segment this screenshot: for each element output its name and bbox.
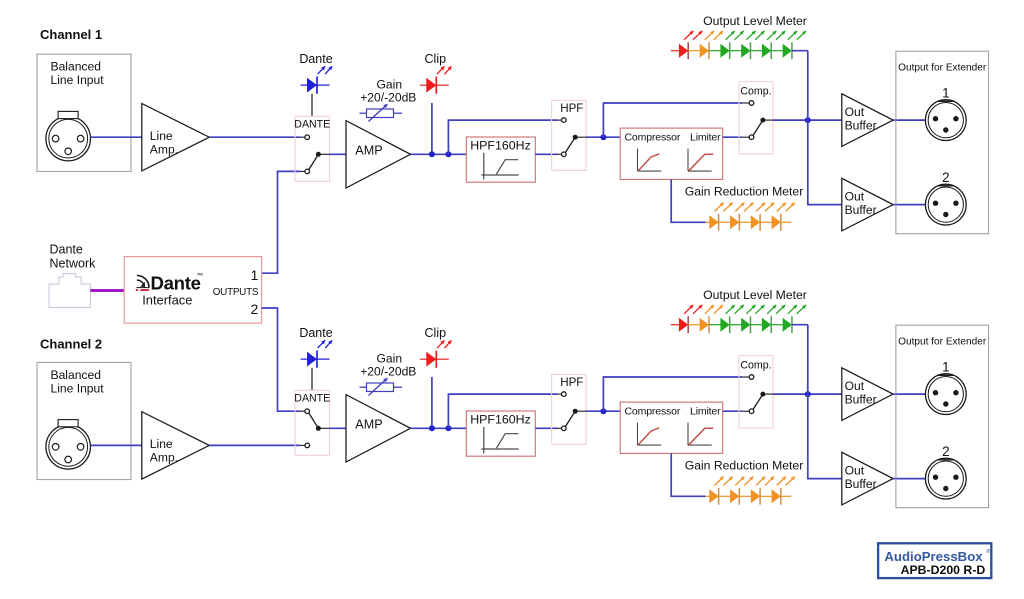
LED level meter LED 2 (channel 2) cathode bar <box>708 316 710 333</box>
DANTE source switch S1a (channel 1) top contact <box>305 135 310 140</box>
switch box compressor bypass S2c (channel 2) <box>739 356 773 428</box>
output level meter lead line (channel 2) <box>671 324 679 326</box>
XLR male connector output 2 (channel 2) outer circle <box>925 458 966 499</box>
wire HPF switch to compressor (channel 2) <box>586 410 620 412</box>
DANTE source switch S1a (channel 1) common contact dot <box>316 152 321 157</box>
LED gain reduction LED 4 (channel 2) cathode bar <box>780 488 782 505</box>
LED gain reduction LED 4 (channel 2) arrow 1 <box>777 477 786 486</box>
svg-text:+20/-20dB: +20/-20dB <box>360 365 416 379</box>
svg-text:HPF160Hz: HPF160Hz <box>470 139 531 153</box>
LED Clip D2b (channel 2) arrow 1 <box>437 340 445 348</box>
svg-text:Out: Out <box>845 190 865 204</box>
svg-text:Network: Network <box>50 256 97 270</box>
junction dot HPF bypass (channel 1) <box>445 151 451 157</box>
HPF response curve horizontal axis (channel 2) <box>481 448 518 450</box>
XLR input J2 pin 2 socket <box>77 444 84 451</box>
wire HPF switch to compressor (channel 1) <box>586 136 620 138</box>
wire out buffer 2 to XLR (channel 1) <box>893 204 925 206</box>
stub to HPF switch bottom contact (channel 1) <box>557 153 562 155</box>
svg-text:Gain Reduction Meter: Gain Reduction Meter <box>685 185 804 199</box>
variable gain attenuator (channel 2) body <box>367 383 394 392</box>
wire Clip LED sense line (channel 2) <box>431 377 433 428</box>
stub to Comp switch top contact (channel 1) <box>742 102 749 104</box>
LED level meter LED 3 (channel 2) arrow 2 <box>735 305 744 314</box>
LED Clip D2b (channel 2) arrow 2 <box>445 340 452 348</box>
LED level meter LED 5 (channel 1) arrow 2 <box>776 31 785 40</box>
balanced line input box (channel 1) <box>37 54 131 171</box>
LED level meter LED 2 (channel 2) triangle <box>700 318 709 332</box>
wire Comp switch to out buffer 1 (channel 2) <box>773 393 842 395</box>
GR meter link segment (channel 2 LED 2) <box>739 495 751 497</box>
XLR male connector output 1 (channel 1) outer circle <box>925 100 966 141</box>
DANTE source switch S2a (channel 2) common contact dot <box>316 426 321 431</box>
XLR input J2 top tab <box>58 420 78 427</box>
LED level meter LED 5 (channel 1) triangle <box>762 44 771 58</box>
HPF switch lever (channel 2) <box>565 411 575 426</box>
LED level meter LED 3 (channel 1) triangle <box>720 44 729 58</box>
XLR male connector output 1 (channel 2) outer circle <box>925 374 966 415</box>
svg-text:Amp.: Amp. <box>150 451 178 465</box>
LED level meter LED 2 (channel 1) arrow 1 <box>705 31 714 40</box>
wire Dante interface output 1 to DANTE switch (channel 1) <box>262 171 301 273</box>
LED Clip D1b (channel 1) lead line <box>420 84 449 86</box>
XLR output 1 (channel 2) pin 3 <box>943 401 948 406</box>
lead from Dante LED to DANTE switch (channel 1) <box>311 94 313 116</box>
wire compressor to Comp switch (channel 2) <box>723 410 742 412</box>
LED level meter LED 4 (channel 2) triangle <box>741 318 750 332</box>
svg-text:HPF: HPF <box>560 376 583 389</box>
XLR output 1 (channel 2) pin 2 <box>953 390 958 395</box>
XLR output 1 (channel 1) top notch <box>938 100 954 102</box>
svg-text:2: 2 <box>942 444 949 459</box>
LED level meter LED 2 (channel 1) triangle <box>700 44 709 58</box>
amplifier Out Buffer U1c (channel 1) <box>842 94 893 147</box>
LED gain reduction LED 4 (channel 1) arrow 1 <box>777 203 786 212</box>
junction dot compressor bypass (channel 1) <box>600 134 606 140</box>
LED gain reduction LED 4 (channel 2) arrow 2 <box>786 477 795 486</box>
meter link segment (channel 2 LED 4) <box>750 324 762 326</box>
meter link segment (channel 1 LED 4) <box>750 50 762 52</box>
variable gain attenuator symbol (channel 1) left lead <box>360 112 367 114</box>
HPF response curve vertical axis (channel 1) <box>483 153 485 180</box>
LED gain reduction LED 4 (channel 1) cathode bar <box>780 214 782 231</box>
HPF switch common dot (channel 2) <box>573 409 578 414</box>
LED gain reduction LED 3 (channel 2) cathode bar <box>759 488 761 505</box>
svg-text:Output Level Meter: Output Level Meter <box>703 14 807 28</box>
XLR output 1 (channel 2) inner circle <box>928 377 963 412</box>
junction dot clip sense (channel 2) <box>429 425 435 431</box>
XLR input J1 top tab <box>58 111 78 118</box>
wire HPF bypass line (channel 2) <box>448 394 557 428</box>
DANTE source switch S2a (channel 2) common stub to box edge <box>318 427 329 429</box>
LED level meter LED 6 (channel 2) arrow 1 <box>788 305 797 314</box>
XLR input J2 inner circle <box>49 427 88 466</box>
gain reduction meter tail line (channel 1) <box>781 221 791 223</box>
svg-text:Buffer: Buffer <box>845 477 877 491</box>
limiter curve horizontal axis (channel 1) <box>688 170 712 172</box>
compressor curve vertical axis (channel 2) <box>637 423 639 446</box>
LED gain reduction LED 3 (channel 1) cathode bar <box>759 214 761 231</box>
LED gain reduction LED 1 (channel 2) arrow 1 <box>715 477 724 486</box>
svg-text:Output for Extender: Output for Extender <box>898 337 987 348</box>
LED level meter LED 4 (channel 2) arrow 2 <box>755 305 764 314</box>
LED level meter LED 3 (channel 1) arrow 2 <box>735 31 744 40</box>
LED gain reduction LED 2 (channel 1) arrow 2 <box>744 203 753 212</box>
LED Clip D1b (channel 1) arrow 1 <box>437 66 445 74</box>
XLR output 2 (channel 2) pin 1 <box>933 475 938 480</box>
Comp switch top contact (channel 1) <box>749 101 754 106</box>
LED level meter LED 6 (channel 2) arrow 2 <box>797 305 806 314</box>
XLR output 2 (channel 2) pin 3 <box>943 486 948 491</box>
stub to HPF switch top contact (channel 2) <box>557 393 562 395</box>
XLR output 1 (channel 2) top notch <box>938 374 954 376</box>
HPF switch common stub (channel 2) <box>575 410 586 412</box>
XLR output 1 (channel 1) pin 2 <box>953 116 958 121</box>
svg-text:AudioPressBox: AudioPressBox <box>884 549 983 564</box>
XLR output 1 (channel 1) pin 1 <box>933 116 938 121</box>
LED level meter LED 5 (channel 1) cathode bar <box>770 42 772 59</box>
limiter curve vertical axis (channel 1) <box>687 149 689 172</box>
DANTE source switch S1a (channel 1) common stub to box edge <box>318 153 329 155</box>
svg-text:Buffer: Buffer <box>845 119 877 133</box>
svg-text:Limiter: Limiter <box>690 406 721 418</box>
LED Dante D1a (channel 1) lead line <box>301 84 330 86</box>
HPF response curve (channel 2) <box>496 434 518 449</box>
LED level meter LED 2 (channel 1) arrow 2 <box>714 31 723 40</box>
svg-text:1: 1 <box>942 359 949 374</box>
LED level meter LED 3 (channel 1) arrow 1 <box>726 31 735 40</box>
meter link segment (channel 1 LED 3) <box>730 50 742 52</box>
LED level meter LED 2 (channel 2) arrow 1 <box>705 305 714 314</box>
variable gain attenuator (channel 2) right lead <box>394 386 403 388</box>
XLR output 2 (channel 2) inner circle <box>928 461 963 496</box>
wire compressor to Comp switch (channel 1) <box>723 136 742 138</box>
variable gain attenuator (channel 1) adjustment arrow <box>369 104 388 122</box>
svg-text:Output for Extender: Output for Extender <box>898 63 987 74</box>
LED Dante D2a (channel 2) lead line <box>301 358 330 360</box>
LED level meter LED 5 (channel 2) triangle <box>762 318 771 332</box>
svg-text:Out: Out <box>845 379 865 393</box>
LED gain reduction LED 2 (channel 2) arrow 2 <box>744 477 753 486</box>
variable gain attenuator (channel 2) adjustment arrow <box>369 378 388 396</box>
LED level meter LED 5 (channel 2) arrow 2 <box>776 305 785 314</box>
XLR female connector input J2 outer circle <box>46 425 91 470</box>
wire compressor bypass line (channel 2) <box>603 377 742 411</box>
svg-text:Comp.: Comp. <box>740 360 771 372</box>
XLR output 2 (channel 2) pin 2 <box>953 475 958 480</box>
LED Dante D1a (channel 1) arrow 1 <box>318 66 326 74</box>
LED level meter LED 1 (channel 1) arrow 1 <box>684 31 693 40</box>
LED Clip D1b (channel 1) arrow 2 <box>445 66 452 74</box>
LED level meter LED 1 (channel 2) arrow 2 <box>693 305 702 314</box>
svg-text:Dante: Dante <box>299 52 332 66</box>
svg-text:Gain Reduction Meter: Gain Reduction Meter <box>685 459 804 473</box>
junction dot compressor bypass (channel 2) <box>600 408 606 414</box>
LED level meter LED 4 (channel 1) triangle <box>741 44 750 58</box>
DANTE source switch S2a (channel 2) stub to top contact <box>301 410 305 412</box>
wire output node to meter and out buffer 2 (channel 1) <box>808 51 842 205</box>
variable gain attenuator symbol (channel 2) left lead <box>360 386 367 388</box>
LED Dante D2a (channel 2) arrow 2 <box>325 340 332 348</box>
LED gain reduction LED 3 (channel 1) triangle <box>751 215 760 229</box>
XLR input J1 pin 3 socket <box>65 148 72 155</box>
HPF switch common stub (channel 1) <box>575 136 586 138</box>
switch box DANTE source switch S2a (channel 2) <box>295 390 330 455</box>
variable gain attenuator (channel 1) right lead <box>394 112 403 114</box>
wire HPF160Hz to HPF switch (channel 1) <box>535 153 557 155</box>
XLR output 1 (channel 2) pin 1 <box>933 390 938 395</box>
LED level meter LED 6 (channel 1) triangle <box>783 44 792 58</box>
wire DANTE switch to AMP (channel 2) <box>330 427 347 429</box>
Comp switch common stub (channel 2) <box>763 393 773 395</box>
XLR male connector output 2 (channel 1) outer circle <box>925 184 966 225</box>
svg-text:2: 2 <box>942 170 949 185</box>
compressor/limiter block (channel 1) <box>620 128 723 179</box>
svg-text:™: ™ <box>197 273 204 280</box>
LED level meter LED 6 (channel 1) cathode bar <box>791 42 793 59</box>
gain reduction meter tail line (channel 2) <box>781 495 791 497</box>
wire AMP to HPF160Hz filter (channel 2) <box>411 427 467 429</box>
amplifier AMP U2b (channel 2) <box>346 395 411 462</box>
LED level meter LED 1 (channel 1) arrow 2 <box>693 31 702 40</box>
DANTE source switch S1a (channel 1) stub to bottom contact <box>301 170 305 172</box>
svg-text:Line: Line <box>150 129 173 143</box>
XLR output 1 (channel 1) inner circle <box>928 103 963 138</box>
compressor transfer curve (channel 2) <box>638 428 659 445</box>
meter link segment (channel 1 LED 5) <box>771 50 783 52</box>
LED Dante D1a (channel 1) cathode bar <box>316 77 318 94</box>
HPF switch bottom contact (channel 1) <box>562 152 567 157</box>
LED level meter LED 3 (channel 2) cathode bar <box>729 316 731 333</box>
wire out buffer 1 to XLR (channel 2) <box>893 393 925 395</box>
DANTE source switch S2a (channel 2) lever <box>309 413 319 428</box>
XLR output 2 (channel 1) pin 3 <box>943 212 948 217</box>
gain reduction meter lead line (channel 1) <box>706 221 710 223</box>
svg-text:Line Input: Line Input <box>51 381 105 395</box>
wire Dante network to interface <box>90 289 124 292</box>
XLR input J2 pin 3 socket <box>65 456 72 463</box>
HPF response curve (channel 1) <box>496 160 518 175</box>
variable gain attenuator (channel 1) body <box>367 109 394 118</box>
svg-text:Out: Out <box>845 105 865 119</box>
LED gain reduction LED 1 (channel 2) arrow 2 <box>723 477 732 486</box>
svg-text:Amp.: Amp. <box>150 142 178 156</box>
compressor curve horizontal axis (channel 1) <box>638 170 662 172</box>
svg-text:Dante: Dante <box>299 326 332 340</box>
LED level meter LED 3 (channel 2) triangle <box>720 318 729 332</box>
svg-text:Buffer: Buffer <box>845 203 877 217</box>
wire AMP to HPF160Hz filter (channel 1) <box>411 153 467 155</box>
LED level meter LED 3 (channel 1) cathode bar <box>729 42 731 59</box>
LED gain reduction LED 1 (channel 1) cathode bar <box>718 214 720 231</box>
svg-text:Clip: Clip <box>425 52 447 66</box>
wire level meter to output node (channel 2) <box>792 324 808 326</box>
LED gain reduction LED 3 (channel 1) arrow 1 <box>756 203 765 212</box>
LED level meter LED 1 (channel 2) arrow 1 <box>684 305 693 314</box>
LED level meter LED 1 (channel 1) triangle <box>679 44 688 58</box>
svg-text:AMP: AMP <box>355 418 382 432</box>
LED level meter LED 3 (channel 2) arrow 1 <box>726 305 735 314</box>
svg-text:1: 1 <box>942 85 949 100</box>
LED level meter LED 6 (channel 2) cathode bar <box>791 316 793 333</box>
HPF switch lever (channel 1) <box>565 137 575 152</box>
switch box DANTE source switch S1a (channel 1) <box>295 116 330 181</box>
Comp switch bottom contact (channel 2) <box>749 409 754 414</box>
LED Dante D1a (channel 1) arrow 2 <box>325 66 332 74</box>
svg-text:Channel 1: Channel 1 <box>40 27 102 42</box>
junction dot output node (channel 2) <box>805 391 811 397</box>
LED level meter LED 4 (channel 2) cathode bar <box>749 316 751 333</box>
Comp switch top contact (channel 2) <box>749 375 754 380</box>
svg-text:APB-D200 R-D: APB-D200 R-D <box>901 563 986 577</box>
Comp switch lever (channel 2) <box>753 394 763 409</box>
XLR output 2 (channel 2) top notch <box>938 459 954 461</box>
LED level meter LED 1 (channel 2) cathode bar <box>687 316 689 333</box>
svg-text:Line Input: Line Input <box>51 73 105 87</box>
GR meter link segment (channel 1 LED 3) <box>760 221 772 223</box>
svg-text:Dante: Dante <box>151 273 201 294</box>
GR meter link segment (channel 1 LED 1) <box>719 221 731 223</box>
output level meter lead line (channel 1) <box>671 50 679 52</box>
LED gain reduction LED 4 (channel 2) triangle <box>772 489 781 503</box>
LED level meter LED 6 (channel 2) triangle <box>783 318 792 332</box>
amplifier Line Amp U1a <box>142 104 210 171</box>
LED gain reduction LED 1 (channel 1) triangle <box>709 215 718 229</box>
LED level meter LED 5 (channel 2) arrow 1 <box>767 305 776 314</box>
LED level meter LED 5 (channel 1) arrow 1 <box>767 31 776 40</box>
svg-text:+20/-20dB: +20/-20dB <box>360 91 416 105</box>
LED level meter LED 5 (channel 2) cathode bar <box>770 316 772 333</box>
output for extender box (channel 1) <box>896 51 989 234</box>
svg-text:AMP: AMP <box>355 144 382 158</box>
DANTE source switch S1a (channel 1) stub to top contact <box>301 136 305 138</box>
compressor transfer curve (channel 1) <box>638 154 659 171</box>
LED gain reduction LED 2 (channel 2) cathode bar <box>738 488 740 505</box>
limiter curve vertical axis (channel 2) <box>687 423 689 446</box>
lead from Dante LED to DANTE switch (channel 2) <box>311 368 313 390</box>
wire Dante interface output 2 to DANTE switch (channel 2) <box>262 308 301 411</box>
wire Comp switch to out buffer 1 (channel 1) <box>773 119 842 121</box>
amplifier AMP U1b (channel 1) <box>346 121 411 188</box>
wire line amp to DANTE switch (channel 1) <box>209 136 300 138</box>
LED Clip D2b (channel 2) lead line <box>420 358 449 360</box>
LED gain reduction LED 4 (channel 1) arrow 2 <box>786 203 795 212</box>
LED gain reduction LED 2 (channel 1) triangle <box>730 215 739 229</box>
switch box HPF bypass S1b (channel 1) <box>552 101 586 171</box>
wire line amp to DANTE switch (channel 2) <box>209 444 300 446</box>
LED gain reduction LED 3 (channel 1) arrow 2 <box>765 203 774 212</box>
stub to Comp switch bottom contact (channel 2) <box>742 410 749 412</box>
limiter transfer curve (channel 2) <box>689 428 713 445</box>
amplifier Out Buffer U2d (channel 2) <box>842 452 893 505</box>
wire XLR input to line amp (channel 1) <box>91 136 142 138</box>
XLR output 2 (channel 1) pin 1 <box>933 201 938 206</box>
LED gain reduction LED 1 (channel 2) triangle <box>709 489 718 503</box>
svg-text:Dante: Dante <box>50 242 83 256</box>
DANTE source switch S1a (channel 1) lever <box>309 154 319 169</box>
compressor curve horizontal axis (channel 2) <box>638 444 662 446</box>
LED level meter LED 2 (channel 2) arrow 2 <box>714 305 723 314</box>
svg-text:HPF160Hz: HPF160Hz <box>470 413 531 427</box>
svg-text:®: ® <box>986 548 990 555</box>
wire XLR input to line amp (channel 2) <box>91 444 142 446</box>
HPF switch bottom contact (channel 2) <box>562 426 567 431</box>
Comp switch common dot (channel 1) <box>760 118 765 123</box>
LED Dante D2a (channel 2) arrow 1 <box>318 340 326 348</box>
Comp switch common dot (channel 2) <box>760 392 765 397</box>
LED gain reduction LED 3 (channel 2) arrow 2 <box>765 477 774 486</box>
LED Dante D2a (channel 2) cathode bar <box>316 351 318 368</box>
DANTE source switch S1a (channel 1) bottom contact <box>305 169 310 174</box>
LED level meter LED 4 (channel 2) arrow 1 <box>746 305 755 314</box>
meter link segment (channel 1 LED 2) <box>709 50 721 52</box>
stub to Comp switch top contact (channel 2) <box>742 376 749 378</box>
meter link segment (channel 2 LED 2) <box>709 324 721 326</box>
svg-text:Buffer: Buffer <box>845 393 877 407</box>
GR meter link segment (channel 2 LED 1) <box>719 495 731 497</box>
svg-text:Comp.: Comp. <box>740 86 771 98</box>
Dante logo icon <box>136 275 149 287</box>
HPF160Hz filter block F2 (channel 2) <box>466 411 535 456</box>
LED Clip D1b (channel 1) triangle <box>426 78 436 93</box>
output for extender box (channel 2) <box>896 325 989 508</box>
LED gain reduction LED 1 (channel 2) cathode bar <box>718 488 720 505</box>
svg-text:Line: Line <box>150 437 173 451</box>
AudioPressBox brand logo box <box>878 543 991 578</box>
wire HPF bypass line (channel 1) <box>448 120 557 154</box>
wire out buffer 1 to XLR (channel 1) <box>893 119 925 121</box>
DANTE source switch S2a (channel 2) stub to bottom contact <box>301 444 305 446</box>
svg-text:Channel 2: Channel 2 <box>40 337 102 352</box>
LED gain reduction LED 2 (channel 2) arrow 1 <box>735 477 744 486</box>
wire DANTE switch to AMP (channel 1) <box>330 153 347 155</box>
LED gain reduction LED 2 (channel 1) cathode bar <box>738 214 740 231</box>
XLR input J1 inner circle <box>49 119 88 158</box>
LED Clip D1b (channel 1) cathode bar <box>435 77 437 94</box>
compressor/limiter block (channel 2) <box>620 402 723 453</box>
wire level meter to output node (channel 1) <box>792 50 808 52</box>
balanced line input box (channel 2) <box>37 362 131 479</box>
svg-text:Interface: Interface <box>142 293 192 308</box>
wire compressor to gain reduction meter (channel 2) <box>671 453 705 496</box>
Dante Interface box U3 <box>124 257 261 324</box>
HPF response curve vertical axis (channel 2) <box>483 427 485 454</box>
amplifier Out Buffer U1d (channel 1) <box>842 178 893 231</box>
LED Clip D2b (channel 2) cathode bar <box>435 351 437 368</box>
HPF switch top contact (channel 2) <box>562 392 567 397</box>
svg-text:DANTE: DANTE <box>294 118 330 130</box>
svg-text:Compressor: Compressor <box>625 132 681 144</box>
meter link segment (channel 2 LED 5) <box>771 324 783 326</box>
svg-text:DANTE: DANTE <box>294 392 330 404</box>
XLR output 2 (channel 1) inner circle <box>928 187 963 222</box>
XLR output 2 (channel 1) pin 2 <box>953 201 958 206</box>
GR meter link segment (channel 2 LED 3) <box>760 495 772 497</box>
LED level meter LED 6 (channel 1) arrow 2 <box>797 31 806 40</box>
XLR input J1 pin 1 socket <box>52 135 59 142</box>
stub to Comp switch bottom contact (channel 1) <box>742 136 749 138</box>
HPF160Hz filter block F1 (channel 1) <box>466 137 535 182</box>
meter link segment (channel 1 LED 1) <box>688 50 700 52</box>
Dante network RJ45 connector <box>49 274 90 308</box>
Comp switch lever (channel 1) <box>753 120 763 135</box>
DANTE source switch S2a (channel 2) bottom contact <box>305 443 310 448</box>
DANTE source switch S2a (channel 2) top contact <box>305 409 310 414</box>
svg-text:1: 1 <box>251 268 259 283</box>
LED gain reduction LED 3 (channel 2) arrow 1 <box>756 477 765 486</box>
limiter curve horizontal axis (channel 2) <box>688 444 712 446</box>
HPF response curve horizontal axis (channel 1) <box>481 174 518 176</box>
